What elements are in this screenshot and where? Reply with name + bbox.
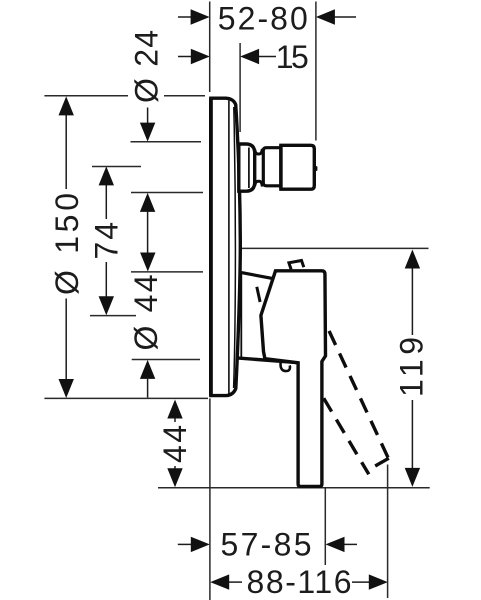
svg-text:119: 119 — [393, 337, 429, 397]
cone crease mark — [257, 287, 260, 302]
dashed lever lower edge — [323, 397, 369, 475]
plate face extension line (x=240.1) — [239, 43, 241, 132]
dashed lever tip extension line (x=387.6) — [387, 465, 389, 599]
lever handle body — [261, 261, 326, 487]
handle sleeve bottom extension line (y=359.5) — [132, 359, 200, 361]
spout axis extension line (y=166.5) — [92, 166, 141, 168]
dimension Ø44 — [128, 253, 164, 398]
dimension 74 — [88, 166, 124, 315]
dashed lever tip edge — [375, 458, 389, 466]
spout tip nub — [315, 167, 316, 171]
svg-text:57-85: 57-85 — [221, 526, 312, 562]
bottom hook detail — [281, 363, 291, 371]
dimension 88-116 — [210, 564, 388, 600]
spout connector flange — [239, 144, 317, 191]
lever grip body and shaft outline — [261, 271, 326, 487]
spout neck top — [255, 149, 263, 154]
dimension 44 — [157, 400, 193, 488]
handle base bottom edge — [237, 358, 297, 363]
cone top edge — [241, 273, 275, 279]
flange seam line — [248, 148, 250, 189]
svg-text:Ø 24: Ø 24 — [129, 30, 165, 103]
spout neck bottom — [255, 181, 263, 186]
handle axis extension line (y=315.6) — [90, 315, 136, 317]
svg-text:74: 74 — [88, 222, 124, 260]
plate bottom extension line (y=398.4) — [44, 397, 208, 399]
spout tip extension line top right (x=315.9) — [315, 2, 317, 141]
119 top extension line (y=248.4) — [240, 247, 428, 249]
wall extension line bottom (x=209.9) — [209, 398, 211, 600]
plate back edge — [209, 98, 213, 397]
handle sleeve top extension line (y=271.9) — [131, 271, 203, 273]
dimension 57-85 — [178, 526, 357, 562]
dashed lever (swung position) upper edge — [327, 327, 389, 461]
svg-text:Ø 44: Ø 44 — [128, 275, 164, 351]
plate face inner contour line — [234, 107, 236, 388]
lever set-screw tab — [289, 261, 304, 270]
svg-text:52-80: 52-80 — [218, 0, 308, 36]
wall plate (escutcheon, side view) — [211, 98, 240, 397]
spout middle section — [263, 148, 281, 186]
cone base contact line — [240, 274, 242, 359]
lever edge extension line bottom (x=325.3) — [324, 489, 326, 566]
spout section divider — [279, 145, 282, 189]
spout top extension line (y=141.8) — [131, 141, 202, 143]
svg-text:Ø 150: Ø 150 — [49, 193, 85, 295]
dimension Ø24 — [129, 30, 165, 255]
plate top extension line (y=95.7) — [44, 95, 128, 97]
dimension Ø150 — [49, 96, 85, 398]
svg-text:15: 15 — [276, 39, 309, 75]
spout end section — [281, 145, 314, 189]
handle cone escutcheon — [237, 273, 297, 372]
dimension 52-80 — [178, 0, 356, 36]
dimension 15 — [178, 39, 309, 75]
spout bottom extension line (y=192.5) — [131, 192, 203, 194]
lever bottom long extension line (y=487.7) — [158, 487, 430, 489]
wall extension line top left (x=209.7) — [209, 2, 211, 93]
svg-text:88-116: 88-116 — [247, 564, 352, 600]
dimension 119 — [393, 250, 429, 487]
plate inner seam line — [228, 101, 230, 394]
